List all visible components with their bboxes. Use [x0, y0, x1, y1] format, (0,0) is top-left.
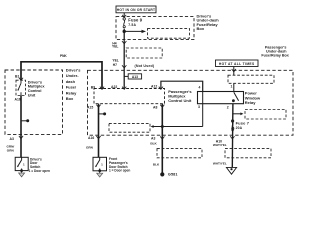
connector A16 cup	[96, 136, 100, 139]
wire A8 to G581	[161, 104, 163, 174]
wire A12 to relay pin 4	[161, 81, 203, 91]
svg-text:A3: A3	[151, 137, 155, 141]
ground symbol (body ground)	[226, 167, 236, 174]
svg-text:Fuse/Relay Box: Fuse/Relay Box	[261, 54, 289, 58]
connector cup B9	[100, 87, 104, 90]
svg-text:A16: A16	[88, 136, 94, 140]
label Passenger's Under-dash Fuse/Relay Box (top right)	[261, 46, 289, 58]
switch inside driver's multiplex control unit	[17, 80, 21, 95]
connector A3 cup	[19, 136, 23, 139]
connector cup A22	[122, 87, 126, 90]
connector H4 cup	[122, 41, 126, 44]
svg-text:A12: A12	[151, 85, 157, 89]
in-line connector dashed box (left)	[157, 149, 202, 158]
wire A16 down to door switch	[20, 96, 22, 158]
label Driver's Under-dash Fuse/Relay Box (top)	[197, 13, 220, 31]
wire color GRN/ORN	[7, 144, 15, 152]
label Driver's Under-dash Fuse/Relay Box (column)	[66, 68, 82, 102]
svg-text:Relay: Relay	[66, 90, 77, 95]
junction dot	[123, 30, 126, 33]
in-line connector dashed box (right)	[225, 149, 271, 158]
svg-text:4: 4	[199, 85, 201, 89]
arrow to other circuit (right)	[124, 30, 146, 33]
svg-text:YEL: YEL	[112, 45, 118, 49]
value label Fuse 9 7.5A	[128, 18, 142, 28]
fuse F9 symbol	[123, 18, 125, 28]
driver's under-dash fuse/relay box (left, box 1)	[5, 70, 63, 134]
wire fuse 9 down to H4	[123, 29, 125, 41]
svg-text:BLK: BLK	[150, 141, 157, 145]
power window relay U1	[198, 92, 244, 104]
wire PNK from B1 to B9 (thick)	[21, 62, 102, 90]
label Driver's Multiplex Control Unit	[28, 79, 46, 97]
svg-text:2: 2	[227, 105, 229, 109]
stub arrow to dashed sub-box	[233, 112, 244, 115]
svg-text:HOT AT ALL TIMES: HOT AT ALL TIMES	[219, 62, 255, 66]
wire A15 down to passenger door switch	[98, 104, 100, 158]
in-line connector dashed box	[126, 48, 162, 58]
wire relay pin 2 down to ground	[231, 104, 234, 168]
svg-text:Fuse 9: Fuse 9	[128, 18, 142, 23]
stub to other circuit with dot	[21, 120, 27, 122]
label Front Passenger's Door Switch	[109, 157, 130, 173]
wire H4 to H7	[123, 41, 125, 68]
connector A3 cup (G581 wire)	[160, 136, 164, 139]
connector cup A15	[96, 105, 100, 108]
ground link from relay pin 3	[151, 125, 203, 128]
connector cup B1	[19, 78, 23, 81]
driver's under-dash fuse/relay box (top)	[116, 17, 194, 40]
svg-text:Fuse/: Fuse/	[66, 85, 77, 90]
svg-text:1: 1	[101, 162, 103, 166]
svg-text:Fuse 7: Fuse 7	[236, 121, 250, 126]
stub to A13	[124, 75, 128, 77]
svg-text:ORN: ORN	[7, 149, 15, 153]
svg-text:Relay: Relay	[245, 100, 256, 105]
dashed sub-box (other grounds)	[109, 123, 150, 132]
svg-text:Unit: Unit	[28, 93, 36, 98]
svg-text:1 = Door open: 1 = Door open	[109, 169, 130, 173]
svg-text:Box: Box	[66, 96, 74, 101]
svg-text:B1: B1	[15, 74, 19, 78]
svg-text:1: 1	[23, 162, 25, 166]
connector cup A12	[159, 87, 163, 90]
svg-text:(Not Used): (Not Used)	[135, 64, 155, 68]
ground below driver's door switch	[19, 171, 25, 177]
svg-text:PNK: PNK	[60, 54, 67, 58]
svg-text:WHT/YEL: WHT/YEL	[213, 161, 227, 165]
connector H7 cup	[122, 65, 126, 68]
svg-text:A3: A3	[10, 137, 14, 141]
connector cup A8	[160, 105, 164, 108]
svg-text:1 = Door open: 1 = Door open	[29, 169, 50, 173]
dashed sub-box right of pin 2	[245, 110, 286, 120]
wire H7 down to A22	[123, 68, 125, 89]
svg-text:B9: B9	[91, 85, 95, 89]
svg-text:BLK: BLK	[153, 162, 160, 166]
driver's multiplex control unit (dashed component box)	[16, 80, 26, 95]
label Power Window Relay	[245, 91, 261, 106]
label HOT AT ALL TIMES	[216, 60, 259, 67]
svg-text:20A: 20A	[236, 126, 243, 130]
svg-text:Control Unit: Control Unit	[168, 98, 192, 103]
svg-text:G581: G581	[168, 172, 178, 176]
label Passenger's Multiplex Control Unit	[168, 89, 192, 103]
pin label YEL / H7	[112, 59, 118, 67]
connector H10 cup	[230, 136, 234, 139]
svg-text:H7: H7	[113, 63, 117, 67]
svg-text:Box: Box	[197, 26, 205, 31]
connector cup	[232, 69, 236, 72]
fuse F7 symbol	[231, 120, 234, 132]
svg-text:WHT/YEL: WHT/YEL	[213, 143, 227, 147]
svg-text:Driver's: Driver's	[66, 68, 82, 73]
svg-text:A22: A22	[111, 85, 117, 89]
ground G581	[160, 172, 164, 176]
label HOT IN ON OR START	[116, 6, 156, 13]
passenger's multiplex control unit (dashed box)	[94, 89, 165, 104]
label Driver's Door Switch	[29, 157, 50, 172]
driver's door switch	[15, 157, 28, 172]
svg-text:3: 3	[198, 105, 200, 109]
stub to other circuit with dot	[99, 113, 104, 115]
svg-text:A16: A16	[15, 98, 21, 102]
wire sub-box to relay pin 1	[233, 83, 235, 91]
svg-text:Under-: Under-	[66, 73, 80, 78]
svg-text:7.5A: 7.5A	[128, 23, 136, 27]
ground below passenger's door switch	[97, 171, 103, 177]
svg-text:A8: A8	[153, 106, 157, 110]
wire relay pin 3 to ground link	[202, 104, 204, 127]
svg-text:1: 1	[231, 85, 233, 89]
wire from HOT label to fuse box	[123, 13, 125, 17]
svg-text:dash: dash	[66, 79, 76, 84]
dashed sub-box inside top fuse box	[148, 29, 190, 39]
passenger's / driver's under-dash fuse relay box (box 2+3)	[88, 70, 294, 135]
dashed sub-box above relay pin 1	[228, 75, 274, 83]
svg-text:A15: A15	[87, 106, 93, 110]
svg-text:HOT IN ON OR START: HOT IN ON OR START	[117, 8, 156, 12]
front passenger's door switch	[93, 157, 107, 172]
connector cup at fuse 9 input	[122, 15, 126, 17]
connector A13 box	[128, 74, 141, 79]
value label Fuse 7 20A	[236, 121, 250, 131]
svg-text:GRN: GRN	[86, 145, 94, 149]
junction dot on ground wire	[161, 125, 164, 128]
pin label H4 / YEL	[112, 41, 118, 48]
wire from HOT AT ALL TIMES down	[233, 67, 235, 76]
svg-text:A13: A13	[132, 75, 138, 79]
